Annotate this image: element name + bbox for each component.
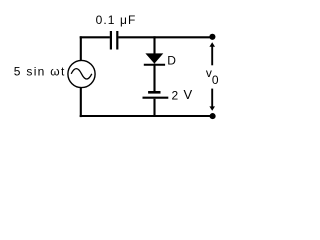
wire: left vertical upper segment (corner down to source circle top) xyxy=(80,36,82,60)
battery 2V long thin plate (bottom) xyxy=(143,97,169,99)
arrow: output polarity up arrowhead xyxy=(209,42,215,46)
capacitor C 0.1uF right plate xyxy=(116,31,118,50)
voltage source V1 sine wave symbol xyxy=(71,69,92,79)
wire: bottom horizontal segment (left corner to bottom output node) xyxy=(80,115,213,117)
wire: top-left horizontal segment (source top to capacitor left plate) xyxy=(80,36,110,38)
arrow: output polarity up arrow shaft xyxy=(211,46,213,65)
wire: top horizontal segment (capacitor right plate to output node) xyxy=(118,36,212,38)
wire: diode cathode to battery top plate xyxy=(153,64,155,92)
voltage source V1 circle (sinusoidal source) xyxy=(68,60,95,87)
svg-text:0: 0 xyxy=(212,73,219,87)
diode D triangle (anode, pointing down) xyxy=(145,53,163,63)
svg-text:V: V xyxy=(184,87,193,102)
node: bottom output terminal dot xyxy=(210,113,216,119)
svg-text:D: D xyxy=(167,54,176,68)
node: top output terminal dot xyxy=(209,34,215,40)
svg-text:2: 2 xyxy=(172,88,179,102)
arrow: output polarity down arrow shaft xyxy=(211,89,213,107)
battery 2V short thick plate (top) xyxy=(148,91,160,94)
wire: battery bottom plate to bottom wire xyxy=(153,99,155,117)
svg-text:5 sin ωt: 5 sin ωt xyxy=(14,65,66,79)
wire: diode branch top segment (top wire T-junction down to diode anode) xyxy=(153,36,155,54)
capacitor C 0.1uF left plate xyxy=(110,31,112,50)
wire: left vertical lower segment (source circle bottom to bottom wire) xyxy=(80,88,82,118)
svg-text:0.1 μF: 0.1 μF xyxy=(96,13,137,27)
diode D cathode bar xyxy=(144,64,165,66)
arrow: output polarity down arrowhead xyxy=(209,106,215,110)
